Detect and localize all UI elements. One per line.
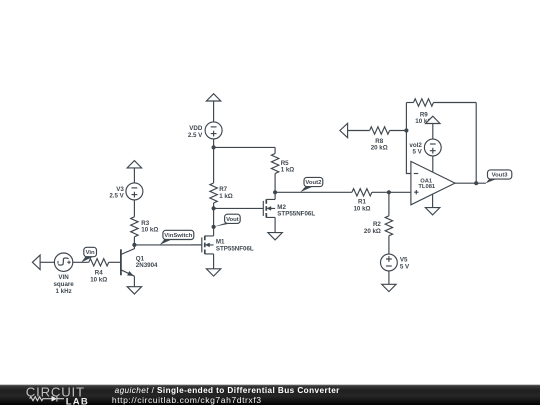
ground (under M2) xyxy=(268,233,282,240)
node dot R8 junction xyxy=(404,128,408,132)
node dot Vout anchor xyxy=(212,225,216,229)
svg-text:1 kΩ: 1 kΩ xyxy=(219,193,233,200)
svg-text:VinSwitch: VinSwitch xyxy=(164,233,192,239)
flag Vout3 xyxy=(486,170,512,183)
flag VinSwitch xyxy=(160,230,194,244)
wire xyxy=(213,147,215,183)
node dot R1/R2 xyxy=(387,190,391,194)
wire xyxy=(274,147,276,153)
wire output xyxy=(455,182,486,184)
ground (left, at VIN) xyxy=(32,255,40,269)
wire xyxy=(372,191,411,193)
source V3 2.5V xyxy=(126,183,143,200)
flag Vout xyxy=(214,214,240,227)
svg-text:Vout: Vout xyxy=(226,217,239,223)
svg-text:R2: R2 xyxy=(373,221,381,228)
svg-text:10 kΩ: 10 kΩ xyxy=(90,277,107,284)
svg-text:Vout3: Vout3 xyxy=(492,173,509,179)
wire xyxy=(434,102,477,104)
svg-text:aguichet / Single-ended to Dif: aguichet / Single-ended to Differential … xyxy=(115,386,341,395)
resistor R5 1k vertical xyxy=(271,154,278,174)
resistor R3 10k vertical xyxy=(131,217,138,237)
node dot VDD xyxy=(212,145,216,149)
bottom bar xyxy=(0,385,540,405)
transistor M2 STP55NF06L xyxy=(263,199,275,217)
svg-text:http://circuitlab.com/ckg7ah7d: http://circuitlab.com/ckg7ah7dtrxf3 xyxy=(112,395,262,405)
ground (under V5) xyxy=(382,284,396,291)
svg-text:TL081: TL081 xyxy=(418,184,436,190)
wire xyxy=(213,203,215,236)
wire node A collector row xyxy=(134,244,201,246)
svg-text:10 kΩ: 10 kΩ xyxy=(141,227,158,234)
wire xyxy=(213,101,215,122)
svg-text:LAB: LAB xyxy=(66,396,89,405)
wire Vout2 row xyxy=(275,191,352,193)
svg-text:Vin: Vin xyxy=(86,250,95,256)
svg-text:5 V: 5 V xyxy=(400,263,410,270)
wire xyxy=(213,139,215,148)
wire xyxy=(214,146,276,148)
resistor R4 10k horizontal xyxy=(89,259,109,266)
svg-text:STP55NF06L: STP55NF06L xyxy=(277,211,315,218)
svg-text:2.5 V: 2.5 V xyxy=(188,132,203,139)
wire xyxy=(133,168,135,183)
resistor R7 1k vertical xyxy=(210,183,217,203)
ground (under M1) xyxy=(206,269,220,276)
ground (left, at R8) xyxy=(340,123,348,137)
source vol2 5V xyxy=(424,139,441,156)
svg-text:2.5 V: 2.5 V xyxy=(109,193,124,200)
transistor Q1 2N3904 xyxy=(121,245,134,276)
wire xyxy=(432,156,434,172)
wire xyxy=(133,276,135,287)
node dot output junction xyxy=(474,181,478,185)
wire xyxy=(432,194,434,208)
ground (up, above vol2) xyxy=(426,116,440,123)
resistor R1 10k horizontal xyxy=(352,189,372,196)
wire xyxy=(274,217,276,232)
svg-text:20 kΩ: 20 kΩ xyxy=(371,145,388,152)
svg-text:1 kHz: 1 kHz xyxy=(56,288,72,295)
wire xyxy=(213,254,215,269)
transistor M1 STP55NF06L xyxy=(191,236,214,254)
node dot collector xyxy=(132,243,136,247)
wire xyxy=(348,130,370,132)
wire feedback right vertical xyxy=(475,103,477,184)
logo resistor-diode glyph xyxy=(30,396,64,402)
wire xyxy=(133,237,135,245)
resistor R2 20k vertical xyxy=(385,216,392,236)
resistor R9 10k horizontal xyxy=(414,99,434,106)
svg-text:5 V: 5 V xyxy=(413,149,423,156)
ground (up, above VDD) xyxy=(206,94,220,101)
wire xyxy=(72,261,88,263)
flag Vout2 xyxy=(300,177,323,192)
svg-text:Vout2: Vout2 xyxy=(305,180,322,186)
wire xyxy=(388,236,390,254)
op-amp OA1 TL081 xyxy=(411,161,455,204)
svg-text:R7: R7 xyxy=(219,186,227,193)
ground (up, above V3) xyxy=(127,161,141,168)
wire xyxy=(390,130,407,132)
ground (under Q1) xyxy=(127,287,141,294)
wire xyxy=(133,200,135,217)
svg-text:2N3904: 2N3904 xyxy=(136,262,158,269)
wire xyxy=(388,271,390,284)
ground (under op-amp) xyxy=(425,208,439,215)
wire xyxy=(388,192,390,216)
flag Vin xyxy=(81,247,96,262)
wire xyxy=(274,174,276,200)
source V5 5V (plus on top) xyxy=(381,254,398,271)
svg-text:10 kΩ: 10 kΩ xyxy=(353,205,370,212)
svg-text:1 kΩ: 1 kΩ xyxy=(281,166,295,173)
wire xyxy=(406,102,413,104)
source VIN square 1kHz xyxy=(54,253,72,271)
node dot R5/M2 drain xyxy=(273,190,277,194)
svg-text:STP55NF06L: STP55NF06L xyxy=(216,245,254,252)
wire xyxy=(432,124,434,140)
wire feedback vertical xyxy=(406,103,411,174)
node dot R7/M2 gate xyxy=(212,206,216,210)
wire xyxy=(40,261,55,263)
source VDD 2.5V xyxy=(205,122,222,139)
wire xyxy=(109,261,121,263)
svg-text:20 kΩ: 20 kΩ xyxy=(364,228,381,235)
wire node R7-M2 gate xyxy=(214,207,264,209)
resistor R8 20k horizontal xyxy=(370,127,390,134)
